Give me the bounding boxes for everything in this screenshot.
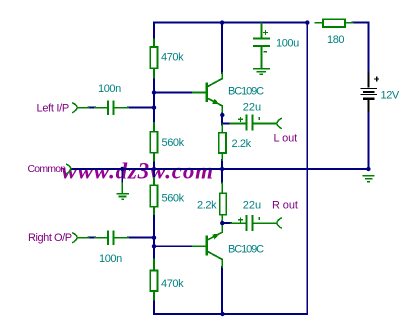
svg-text:180: 180 (327, 34, 344, 46)
svg-text:22u: 22u (243, 200, 261, 212)
svg-text:BC109C: BC109C (228, 86, 264, 98)
svg-text:2.2k: 2.2k (197, 200, 217, 212)
svg-text:www.dz3w.com: www.dz3w.com (62, 158, 214, 183)
svg-text:L out: L out (274, 132, 298, 144)
svg-text:2.2k: 2.2k (232, 138, 252, 150)
svg-text:R out: R out (272, 199, 298, 211)
svg-text:100n: 100n (99, 253, 122, 265)
svg-text:470k: 470k (161, 278, 184, 290)
svg-text:BC109C: BC109C (228, 243, 264, 255)
svg-text:470k: 470k (161, 52, 184, 64)
svg-text:Left I/P: Left I/P (37, 103, 69, 115)
svg-text:100n: 100n (98, 83, 121, 95)
svg-text:560k: 560k (162, 137, 185, 149)
svg-text:100u: 100u (276, 38, 299, 50)
svg-text:22u: 22u (243, 102, 261, 114)
svg-text:12V: 12V (381, 90, 400, 102)
svg-text:Right O/P: Right O/P (28, 232, 72, 244)
svg-text:560k: 560k (162, 193, 185, 205)
svg-text:Common: Common (28, 163, 67, 175)
